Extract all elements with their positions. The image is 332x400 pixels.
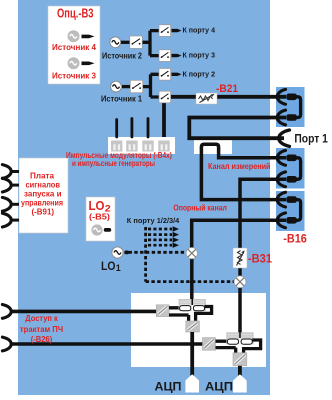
generator source 2 [110,37,121,48]
pulse modulator icon 1 [111,141,122,152]
IF right switch B [233,353,247,366]
svg-text:Источник 3: Источник 3 [52,70,96,80]
IF right filter block R [241,332,254,344]
svg-text:К порту 1/2/3/4: К порту 1/2/3/4 [127,218,180,225]
coupler3 pill bottom [286,217,297,224]
wire mixer2 to IF right chain [238,288,242,339]
wire source1 to switch [122,85,131,88]
modulator stem 4 from switch D [162,103,166,137]
modulator stem 1 [115,120,118,138]
pulse modulator icon 4 [158,141,169,152]
switch box source2 [130,36,142,48]
coupler3 pill top [286,196,297,203]
IF left jumper hook wire [196,307,212,322]
IF right filter block L [226,332,239,344]
ADC 2 connector pentagon [233,374,247,392]
switch box source1 [130,80,142,92]
svg-text:Доступ к: Доступ к [25,314,58,323]
jumper slot white box [194,140,232,154]
IF right pill 2 [241,339,252,344]
coupler module box 2 [276,148,305,189]
IF access line 1 [11,310,157,314]
dashed LO line to mixer2 [146,280,234,283]
board connector 2 [2,178,19,192]
wire reference: coupler3 bottom to mixer1 [192,220,286,247]
IF right switch A [203,338,216,351]
mixer 1 [186,248,197,259]
IF section white box [131,293,266,367]
generator source 4 [68,30,95,42]
dashed LO arrow 2 [148,232,179,237]
arrow to port 3 [172,54,182,57]
svg-text:управления: управления [21,199,63,208]
svg-text:Канал измерений: Канал измерений [208,162,271,171]
option box Opc.-B3 [48,6,100,84]
wire source1 splitter [143,74,159,97]
svg-text:Опорный канал: Опорный канал [173,203,227,212]
svg-text:LO: LO [101,259,116,273]
IF left switch A [156,305,169,317]
wire port line from coupler1 back to port1 connector [189,118,286,139]
IF left pill 1 [180,306,191,311]
coupler2 loop wire [296,158,301,180]
coupler1 pill top [286,94,297,101]
svg-text:-В16: -В16 [283,231,307,245]
dashed LO vertical distribution [144,227,147,282]
coupler1 pill bottom [286,114,297,121]
svg-text:Источник 4: Источник 4 [52,42,96,52]
IF right jumper hook wire [244,340,261,353]
wire switch D to coupler1 via B21 attenuator [171,95,287,99]
svg-text:Источник 2: Источник 2 [102,51,143,60]
modulator stem 2 [130,119,133,138]
svg-text:Источник 1: Источник 1 [101,95,143,104]
svg-text:К порту 4: К порту 4 [183,26,216,35]
wire source2 splitter [142,31,159,56]
IF access line 2 [11,342,203,346]
dashed LO arrow 3 [148,237,179,242]
IF left filter block R [193,299,206,311]
board connector 1 [2,165,19,179]
svg-text:запуска и: запуска и [24,190,62,199]
wire source2 to switch [121,41,131,44]
switch box port4 [159,25,171,37]
IF left chain branch wires [169,308,189,322]
wire IF left to ADC1 [190,332,194,376]
svg-text:(-В26): (-В26) [31,335,53,344]
svg-text:-В21: -В21 [216,83,238,95]
coupler2 connector arc top [277,150,285,165]
svg-text:Порт 1: Порт 1 [294,134,328,146]
generator source 1 [111,81,122,92]
svg-text:АЦП: АЦП [205,379,233,393]
board connector 4 [2,213,19,227]
wire coupler2 bottom to B31 attenuator [240,179,286,248]
modulator stem 3 [147,119,150,138]
port 1 connector [279,130,290,146]
switch box main D [159,91,171,103]
LO2 box -B5 [86,197,115,241]
svg-text:-В31: -В31 [248,251,272,265]
IF right chain branch wires [216,341,236,353]
arrow to port 4 [172,29,182,32]
wire mixer1 to IF left chain [190,259,194,305]
dashed LO arrow 1 [148,226,179,231]
wire IF right to ADC2 [238,366,242,376]
coupler module box 1 [276,87,305,127]
IF left switch B [186,321,200,332]
coupler2 pill bottom [286,176,297,183]
svg-text:Опц.-В3: Опц.-В3 [57,6,94,21]
IF left pill 2 [193,306,204,311]
coupler1 loop wire [296,97,301,118]
access connector 1 [2,305,11,319]
IF left filter block L [179,299,192,311]
attenuator B31 [233,248,247,268]
pulse modulator icon 3 [142,141,153,152]
svg-text:1: 1 [116,263,121,273]
svg-text:К порту 3: К порту 3 [183,51,216,60]
generator LO1 [112,247,129,258]
IF right pill 1 [227,339,238,344]
svg-text:сигналов: сигналов [26,181,61,190]
svg-text:Плата: Плата [30,172,55,181]
arrow to port 2 [172,73,182,76]
wire measurement channel via jumper loop to coupler2 [201,144,286,199]
generator LO2 icon [91,224,111,235]
board box -B91 [19,158,68,233]
main blue panel [18,0,270,395]
ADC 1 connector pentagon [185,374,199,392]
svg-text:(-В91): (-В91) [32,208,55,217]
pulse modulator icon 2 [126,141,137,152]
coupler2 pill top [286,155,297,162]
coupler3 connector arc top [277,192,285,207]
coupler3 loop wire [296,200,301,221]
access connector 2 [2,337,11,351]
switch box port2 [159,69,171,81]
svg-text:и импульсные генераторы: и импульсные генераторы [72,159,155,168]
pulse modulator box [108,137,175,154]
svg-text:(-В5): (-В5) [89,213,110,222]
coupler module box 3 -B16 [276,191,305,231]
coupler1 connector arc top [277,89,285,104]
coupler3 connector arc bottom [277,213,285,228]
svg-text:трактам ПЧ: трактам ПЧ [20,325,64,334]
coupler1 connector arc bottom [277,110,285,125]
generator source 3 [68,57,95,69]
wire B31 to mixer2 [238,268,242,276]
dashed LO arrow 4 [148,243,179,248]
mixer 2 [234,276,246,288]
svg-text:К порту 2: К порту 2 [183,69,216,78]
svg-text:АЦП: АЦП [155,379,182,393]
attenuator B21 [196,93,217,104]
dashed LO line to mixer1 [129,251,187,254]
board connector 3 [2,197,19,211]
switch box port3 [159,50,171,62]
coupler2 connector arc bottom [277,172,285,187]
svg-text:LO: LO [89,199,105,213]
